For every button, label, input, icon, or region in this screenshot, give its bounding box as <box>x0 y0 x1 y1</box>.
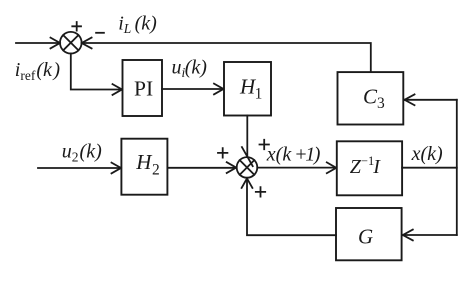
svg-text:iL(k): iL(k) <box>118 13 157 36</box>
wire u_2 input <box>38 167 121 169</box>
svg-text:H2: H2 <box>135 150 159 178</box>
wire x(k) to right bus <box>402 167 457 169</box>
block H2 <box>121 139 167 195</box>
summing junction S2 <box>237 157 258 178</box>
wire feedback i_L top <box>82 43 371 71</box>
wire H2 to S2 <box>167 167 235 169</box>
wire G to S2 <box>247 179 336 235</box>
wire S2 to Z block (x(k+1)) <box>257 167 336 169</box>
svg-text:ui(k): ui(k) <box>172 57 208 81</box>
block C3 <box>338 72 404 124</box>
block PI <box>123 60 163 116</box>
sign minus S1 <box>96 32 104 34</box>
svg-text:C3: C3 <box>363 85 385 112</box>
svg-text:x(k): x(k) <box>411 143 443 165</box>
sign plus S2 top <box>260 140 269 149</box>
svg-text:x(k+1): x(k+1) <box>266 144 321 166</box>
sign plus S1 <box>72 22 81 31</box>
svg-text:H1: H1 <box>239 75 262 103</box>
wire bus to G <box>403 234 457 236</box>
wire S1 to PI <box>71 54 122 90</box>
svg-text:u2(k): u2(k) <box>62 141 102 165</box>
sign plus S2 left <box>218 148 227 157</box>
svg-text:Z−1I: Z−1I <box>350 154 381 178</box>
block Z^-1 I <box>337 141 402 195</box>
summing junction S1 <box>60 32 82 54</box>
block G <box>336 208 402 260</box>
svg-text:G: G <box>358 224 373 248</box>
sign plus S2 bottom <box>256 187 265 196</box>
wire i_ref input <box>16 42 60 44</box>
svg-text:iref(k): iref(k) <box>15 59 61 83</box>
wire u_i PI to H1 <box>162 88 223 90</box>
wire bus to C3 <box>405 99 457 101</box>
wire H1 down to S2 <box>246 116 248 157</box>
svg-text:PI: PI <box>134 77 153 101</box>
wire right vertical bus <box>456 100 458 235</box>
block H1 <box>224 62 271 116</box>
